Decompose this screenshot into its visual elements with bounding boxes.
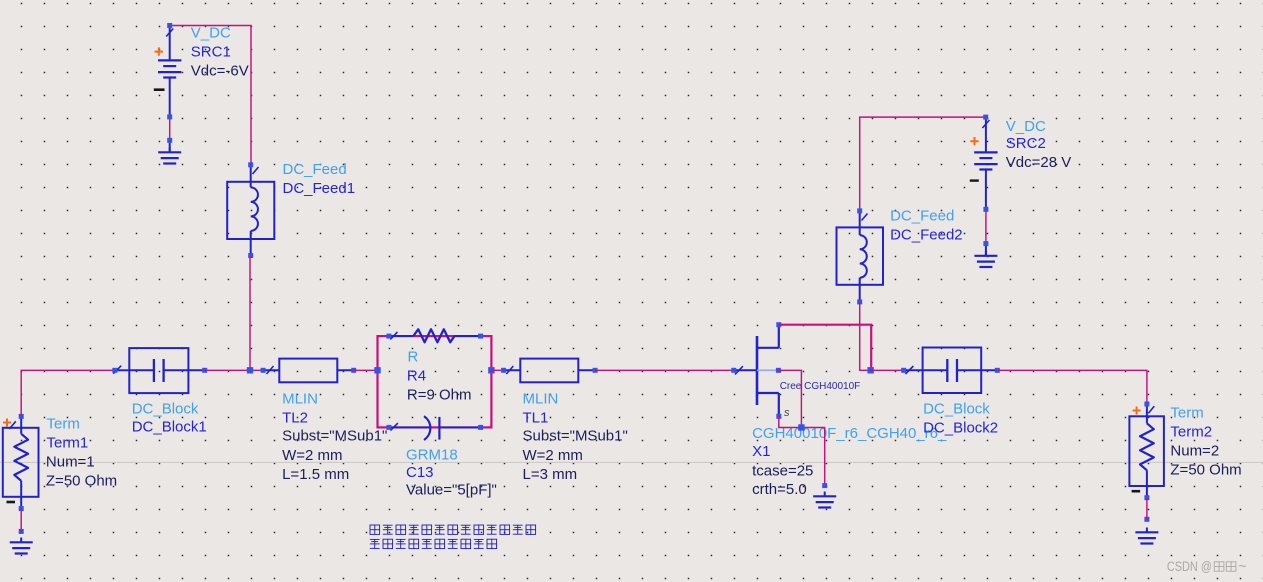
- node square TL1 left: [501, 368, 506, 373]
- node square DC_Feed2 top: [857, 208, 862, 213]
- pin-1 tick DC_Feed2: [862, 214, 868, 221]
- inductor DC_Feed1: [227, 165, 274, 256]
- wire TL2 to RC loop: [354, 369, 378, 371]
- node square SRC1 mid upper: [167, 114, 172, 119]
- svg-text:X1: X1: [752, 443, 770, 460]
- svg-text:V_DC: V_DC: [1006, 118, 1046, 135]
- svg-text:Term1: Term1: [47, 434, 89, 451]
- svg-text:crth=5.0: crth=5.0: [752, 481, 807, 498]
- ground under SRC2: [974, 251, 997, 267]
- wire loop to TL1: [491, 369, 503, 371]
- voltage source SRC1: [154, 26, 182, 153]
- svg-text:L=3 mm: L=3 mm: [523, 466, 578, 483]
- node square SRC2 mid upper: [983, 207, 988, 212]
- node square X1 source pin: [776, 414, 781, 419]
- svg-text:Cree CGH40010F: Cree CGH40010F: [780, 381, 861, 392]
- node square Term1 top: [19, 414, 24, 419]
- wire Term1 to DC_Block1: [21, 370, 115, 416]
- ground under Term1: [10, 538, 33, 554]
- node square R4 left: [386, 334, 391, 339]
- svg-text:Subst="MSub1": Subst="MSub1": [523, 427, 628, 444]
- wire X1 mid pin down: [778, 370, 801, 427]
- node square gnd wire end: [822, 483, 827, 488]
- svg-text:Num=1: Num=1: [46, 453, 95, 470]
- transistor X1 (Cree FET): [734, 325, 779, 417]
- node square Term2 gnd: [1144, 517, 1149, 522]
- wire TL1 to X1 gate: [595, 369, 734, 371]
- annotation chinese line 2: [370, 539, 497, 548]
- node square TL2 left: [261, 368, 266, 373]
- svg-text:MLIN: MLIN: [282, 390, 318, 407]
- svg-text:DC_Feed: DC_Feed: [283, 161, 347, 178]
- pin-1 tick Term2: [1148, 406, 1154, 413]
- resistor R4: [389, 329, 481, 342]
- svg-text:W=2 mm: W=2 mm: [282, 447, 342, 464]
- node square SRC2 top: [983, 115, 988, 120]
- voltage source SRC2: [970, 117, 998, 256]
- svg-text:R=9 Ohm: R=9 Ohm: [407, 387, 472, 404]
- node square Term1 bottom: [19, 506, 24, 511]
- svg-text:SRC1: SRC1: [191, 43, 231, 60]
- pin-1 tick C13: [390, 423, 398, 430]
- node square DC_Block2 right: [995, 368, 1000, 373]
- node square X1 gate wire: [731, 368, 736, 373]
- svg-text:CSDN @: CSDN @: [1167, 559, 1212, 574]
- node square R4 right: [478, 334, 483, 339]
- svg-text:DC_Block: DC_Block: [132, 401, 199, 418]
- microstrip line TL2: [263, 359, 354, 383]
- pin-1 tick DC_Block2: [905, 366, 913, 374]
- node square SRC1 mid lower: [167, 138, 172, 143]
- ground under X1: [813, 492, 836, 508]
- node square SRC2 mid lower: [983, 241, 988, 246]
- pin-1 tick Term1: [9, 421, 16, 429]
- junction square loop right: [488, 367, 494, 373]
- svg-text:Vdc=-6V: Vdc=-6V: [191, 62, 249, 79]
- svg-text:MLIN: MLIN: [523, 390, 559, 407]
- node square DC_Feed1 top: [248, 162, 253, 167]
- junction square loop left: [374, 367, 380, 373]
- pin-1 tick X1 gate: [735, 366, 743, 374]
- node square TL1 right: [593, 368, 598, 373]
- pin-1 tick SRC1: [166, 29, 173, 37]
- svg-text:Term: Term: [1170, 404, 1203, 421]
- wire X1 drain: [779, 325, 871, 371]
- svg-text:DC_Block: DC_Block: [923, 401, 990, 418]
- ground under Term2: [1135, 528, 1158, 544]
- microstrip line TL1: [504, 359, 595, 383]
- wire X1 source to ground: [779, 416, 825, 485]
- wire Term2 to gnd: [1146, 498, 1148, 520]
- node square SRC1 top: [167, 23, 172, 28]
- svg-text:DC_Block1: DC_Block1: [132, 419, 207, 436]
- node square X1 mid pin: [776, 368, 781, 373]
- svg-text:TL1: TL1: [523, 409, 549, 426]
- node square DC_Block1 right: [202, 368, 207, 373]
- svg-text:GRM18: GRM18: [406, 447, 458, 464]
- pin-1 tick TL2: [267, 366, 274, 374]
- svg-text:R4: R4: [407, 368, 426, 385]
- junction square main/DC_Feed1: [247, 367, 253, 373]
- wire DC_Block2 to Term2: [997, 370, 1147, 404]
- node square DC_Block1 left: [112, 368, 117, 373]
- svg-text:Value="5[pF]": Value="5[pF]": [406, 482, 497, 499]
- port Term2: [1129, 404, 1164, 498]
- capacitor DC_Block2: [904, 348, 998, 394]
- svg-text:SRC2: SRC2: [1006, 135, 1046, 152]
- svg-text:~: ~: [1239, 559, 1247, 574]
- svg-text:DC_Block2: DC_Block2: [923, 420, 998, 437]
- wire SRC2 to ground: [985, 209, 987, 243]
- node square Term2 bottom: [1144, 495, 1149, 500]
- port Term1: [3, 416, 39, 508]
- node square DC_Feed1 bottom: [248, 253, 253, 258]
- svg-text:DC_Feed: DC_Feed: [890, 208, 954, 225]
- svg-text:s: s: [784, 407, 790, 419]
- svg-text:W=2 mm: W=2 mm: [523, 447, 583, 464]
- svg-text:tcase=25: tcase=25: [752, 462, 813, 479]
- annotation chinese line 1: [370, 525, 536, 534]
- svg-text:Term: Term: [47, 415, 80, 432]
- ground under SRC1: [158, 148, 181, 164]
- wire DC_Block1 to MLIN TL2: [205, 369, 263, 371]
- svg-text:DC_Feed1: DC_Feed1: [283, 180, 356, 197]
- svg-text:Vdc=28 V: Vdc=28 V: [1006, 154, 1071, 171]
- svg-text:DC_Feed2: DC_Feed2: [890, 227, 963, 244]
- wire SRC2 top to DC_Feed2: [860, 117, 986, 211]
- capacitor C13: [389, 416, 481, 440]
- capacitor DC_Block1: [115, 348, 205, 393]
- svg-text:V_DC: V_DC: [191, 24, 231, 41]
- node square C13 right: [478, 425, 483, 430]
- wire SRC1 to ground: [169, 117, 171, 140]
- svg-text:Z=50 Ohm: Z=50 Ohm: [1170, 462, 1241, 479]
- svg-text:Subst="MSub1": Subst="MSub1": [282, 427, 387, 444]
- svg-text:TL2: TL2: [282, 409, 308, 426]
- wire DC_Feed1 down to main line: [249, 256, 251, 371]
- node square DC_Block2 left: [901, 368, 906, 373]
- svg-text:R: R: [408, 349, 419, 366]
- wire RC feedback loop: [378, 336, 492, 427]
- wire DC_Feed2 down to drain junction: [860, 302, 871, 370]
- svg-text:Z=50 Ohm: Z=50 Ohm: [46, 472, 117, 489]
- pin-1 tick TL1: [506, 366, 513, 374]
- node square Term1 gnd: [19, 529, 24, 534]
- pin-1 tick SRC2: [982, 120, 989, 128]
- wire SRC1 top to DC_Feed1: [170, 26, 251, 165]
- junction square drain net: [867, 367, 873, 373]
- wire junction to DC_Block2: [871, 369, 904, 371]
- svg-text:Term2: Term2: [1170, 424, 1212, 441]
- pin-1 tick DC_Block1: [113, 366, 121, 374]
- svg-text:Num=2: Num=2: [1170, 443, 1219, 460]
- svg-text:C13: C13: [406, 464, 434, 481]
- node square C13 left: [386, 425, 391, 430]
- svg-text:L=1.5 mm: L=1.5 mm: [282, 466, 349, 483]
- node square DC_Feed2 bottom: [857, 299, 862, 304]
- sheet boundary faint line: [0, 461, 1263, 463]
- node square Term2 top: [1144, 402, 1149, 407]
- pin-1 tick R4: [390, 332, 397, 340]
- inductor DC_Feed2: [837, 211, 884, 302]
- junction square source net: [798, 424, 804, 430]
- node square X1 drain pin: [776, 322, 781, 327]
- wire Term1 to gnd: [20, 509, 22, 532]
- pin-1 tick DC_Feed1: [253, 167, 259, 174]
- node square TL2 right: [351, 368, 356, 373]
